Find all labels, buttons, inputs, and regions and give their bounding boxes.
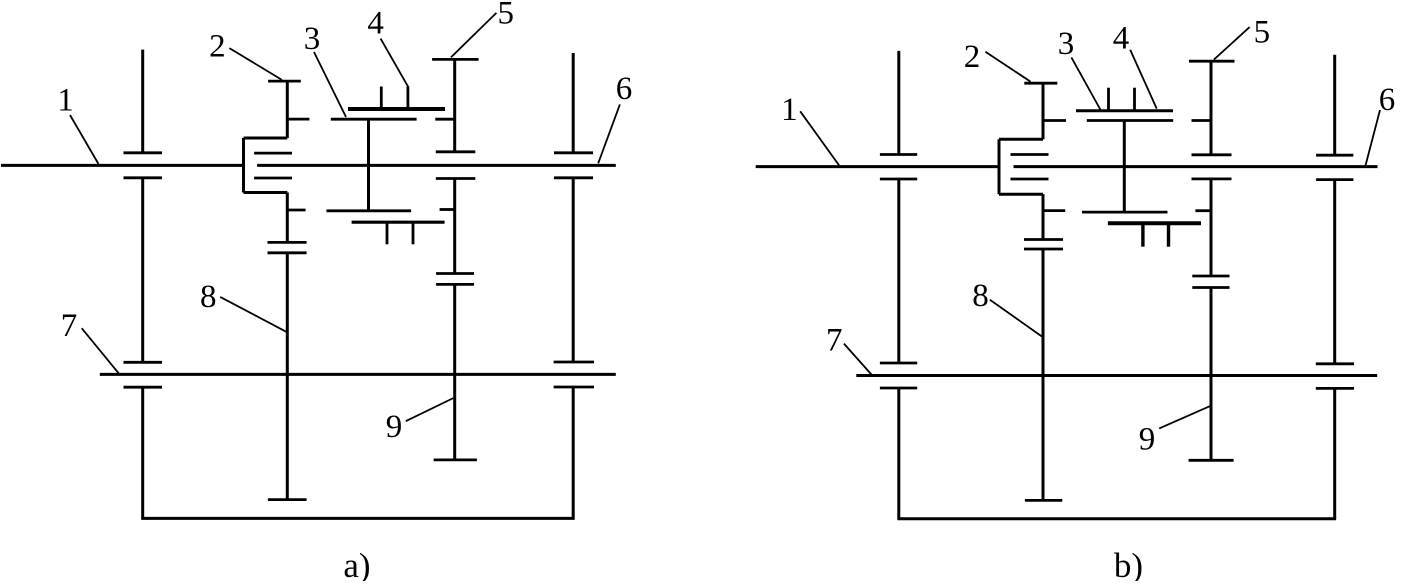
bearing gear 5 block on shaft 1 (b) (1192, 153, 1232, 156)
sliding coupling on gear 9 line (b) (1192, 275, 1229, 278)
svg-text:4: 4 (1113, 20, 1130, 56)
leader 5 (a) (451, 13, 497, 58)
bearing left wall on shaft 7 (b) (880, 362, 917, 365)
svg-text:a): a) (343, 546, 370, 581)
housing left wall (a) (141, 50, 144, 153)
svg-text:6: 6 (1379, 82, 1396, 118)
bearing right wall on shaft 7 (a) (554, 361, 594, 364)
svg-text:1: 1 (57, 82, 74, 118)
sliding coupling on gear 8 line (a) (268, 241, 307, 244)
leader 8 (a) (220, 297, 286, 332)
gear 4 bottom rim (a) (352, 221, 445, 224)
gear 2 mesh tick (a) (287, 118, 309, 121)
gear 9 bottom rim (a) (434, 458, 477, 461)
svg-text:b): b) (1114, 546, 1143, 581)
leader 9 (b) (1159, 406, 1210, 429)
shaft 1 input shaft (b) (756, 165, 999, 168)
gear 4 top teeth ticks (b) (1107, 88, 1110, 111)
bearing left wall on shaft 1 (a) (124, 151, 163, 154)
clutch plates (b) (1011, 153, 1049, 156)
leader 4 (a) (381, 39, 409, 88)
clutch housing bracket (b) (998, 139, 1001, 194)
bearing right wall on shaft 7 (b) (1316, 362, 1354, 365)
leader 2 (b) (985, 52, 1030, 82)
gear 2 top rim (a) (268, 80, 301, 83)
gear 5 / gear 9 vertical line (a) (453, 59, 456, 151)
leader 8 (b) (990, 300, 1043, 337)
gear 3 top rim (a) (331, 118, 417, 121)
gear 9 bottom rim (b) (1189, 459, 1234, 462)
gear 2 mesh tick (b) (1043, 119, 1066, 122)
gear 4 bottom teeth ticks (b) (1141, 223, 1144, 247)
gear 4 top rim (b) (1076, 109, 1173, 112)
svg-text:9: 9 (386, 409, 403, 445)
clutch plates (a) (254, 152, 292, 155)
housing right wall (b) (1333, 55, 1336, 156)
svg-text:4: 4 (367, 6, 384, 42)
svg-text:8: 8 (972, 278, 989, 314)
bearing right wall on shaft 1 (b) (1316, 154, 1353, 157)
gear 5 mesh tick (a) (435, 118, 454, 121)
housing bottom wall (a) (141, 517, 574, 520)
gear 8 bottom rim (b) (1025, 499, 1062, 502)
svg-text:8: 8 (200, 279, 217, 315)
housing right wall (a) (572, 53, 575, 153)
gear 5 / gear 9 vertical line (b) (1210, 61, 1213, 155)
clutch housing bracket (a) (242, 138, 245, 193)
housing bottom wall (b) (897, 517, 1336, 520)
leader 5 (b) (1214, 27, 1250, 59)
leader 1 (a) (70, 115, 99, 164)
gear 9 mesh tick (b) (1195, 209, 1211, 212)
gear 8 mesh tick (b) (1043, 209, 1065, 212)
shaft 7 output shaft (b) (856, 374, 1377, 377)
gear 5 top rim (b) (1189, 60, 1235, 63)
leader 3 (b) (1071, 57, 1100, 110)
leader 3 (a) (314, 52, 346, 117)
leader 9 (a) (406, 398, 454, 421)
svg-text:6: 6 (616, 71, 633, 107)
gear 8 mesh tick (a) (287, 209, 305, 212)
gear 3 top rim (b) (1087, 119, 1173, 122)
leader 4 (b) (1130, 50, 1157, 109)
gear 5 mesh tick (b) (1192, 119, 1212, 122)
gear 2 / gear 8 vertical line (a) (286, 81, 289, 138)
svg-text:2: 2 (964, 39, 981, 75)
gear 3 bottom rim (b) (1082, 211, 1168, 214)
leader 2 (a) (229, 48, 282, 80)
housing left wall (b) (897, 51, 900, 155)
svg-text:5: 5 (498, 0, 515, 31)
svg-text:3: 3 (304, 21, 321, 57)
sliding coupling on gear 9 line (a) (436, 272, 474, 275)
gear 9 mesh tick (a) (440, 208, 455, 211)
leader 1 (b) (800, 111, 840, 166)
leader 6 (b) (1366, 110, 1381, 166)
svg-text:7: 7 (826, 323, 843, 359)
leader 6 (a) (598, 104, 620, 163)
bearing right wall on shaft 1 (a) (554, 151, 593, 154)
shaft 1 input shaft (a) (1, 164, 244, 167)
gear 4 bottom teeth ticks (a) (386, 222, 389, 244)
gear 4 top rim (a) (348, 107, 445, 111)
gear 2 / gear 8 vertical line (b) (1042, 83, 1045, 139)
gear 3 axis vertical (a) (367, 119, 370, 211)
svg-text:5: 5 (1254, 15, 1271, 51)
gear 4 bottom rim (b) (1108, 221, 1201, 225)
bearing left wall on shaft 1 (b) (880, 153, 917, 156)
gear 3 bottom rim (a) (326, 209, 411, 212)
gear 3 axis vertical (b) (1123, 121, 1126, 213)
gear 4 top teeth ticks (a) (380, 87, 383, 110)
svg-text:2: 2 (209, 28, 226, 64)
svg-text:1: 1 (781, 92, 798, 128)
shaft 7 output shaft (a) (100, 373, 616, 376)
svg-text:3: 3 (1058, 26, 1075, 62)
leader 7 (b) (844, 344, 872, 376)
leader 7 (a) (82, 328, 120, 374)
svg-text:7: 7 (61, 308, 78, 344)
gear 8 bottom rim (a) (268, 498, 307, 501)
sliding coupling on gear 8 line (b) (1024, 238, 1063, 241)
gear 5 top rim (a) (432, 58, 479, 61)
svg-text:9: 9 (1139, 422, 1156, 458)
bearing left wall on shaft 7 (a) (124, 361, 163, 364)
gear 2 top rim (b) (1024, 82, 1057, 85)
bearing gear 5 block on shaft 1 (a) (436, 150, 476, 153)
